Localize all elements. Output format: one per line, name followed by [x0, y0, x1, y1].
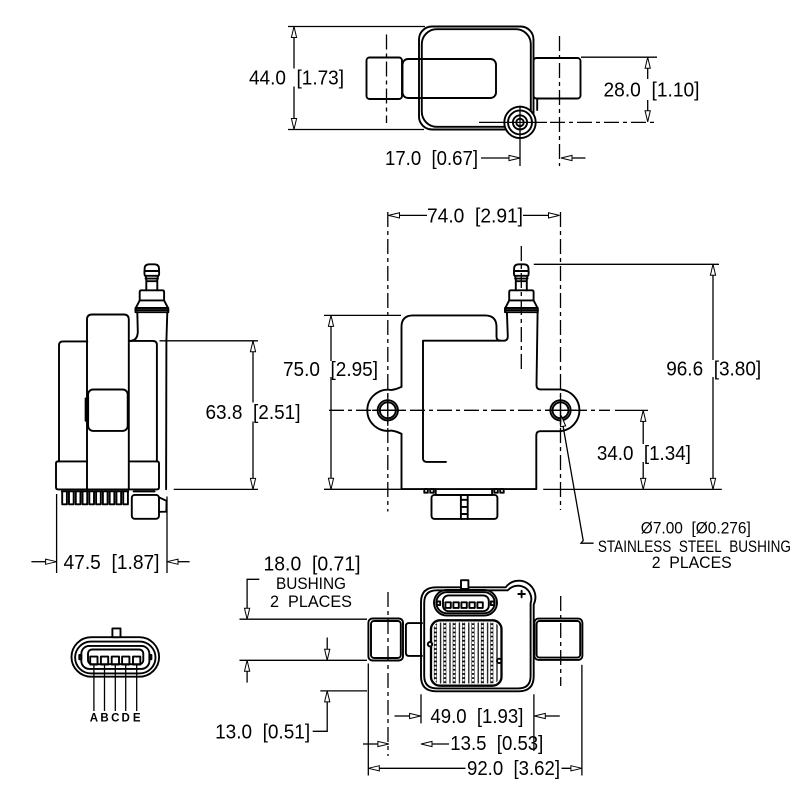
top view tower ring 4	[516, 119, 524, 127]
front view right hole cross	[545, 395, 576, 426]
bottom view rivet right	[497, 659, 501, 663]
dim 47.5 right arrow tail	[178, 561, 190, 563]
dim 49.0 right arrow tail	[545, 715, 560, 717]
bottom view left bushing boss	[406, 623, 422, 656]
bottom view core lamination pattern	[433, 623, 499, 684]
bottom view pin holder	[443, 595, 489, 611]
front view tower neck	[516, 279, 527, 291]
dim 74.0 arrow left	[389, 213, 400, 218]
front view tower skirt	[505, 300, 537, 308]
dim 74.0 dimension line	[400, 214, 549, 216]
svg-text:74.0 [2.91]: 74.0 [2.91]	[427, 205, 523, 227]
bottom view body outer outline	[421, 581, 535, 692]
front view tower cap rib line	[515, 278, 527, 280]
top view left tab centerline	[386, 35, 388, 124]
detail pin C	[112, 657, 119, 665]
dim 63.8 arrow down	[250, 478, 255, 489]
svg-text:34.0 [1.34]: 34.0 [1.34]	[597, 443, 691, 465]
bottom view pin 4	[469, 602, 474, 608]
dim 28.0 dimension line	[647, 57, 649, 122]
dim 13.0 upper arrow tail	[326, 638, 328, 650]
svg-text:28.0 [1.10]: 28.0 [1.10]	[604, 80, 700, 102]
side view boot tower cap band	[144, 271, 159, 276]
bottom view plus mark	[518, 591, 525, 598]
front view tower cap dome	[514, 264, 528, 271]
front view left hole outer	[378, 400, 398, 420]
top view tower ring 2	[508, 110, 532, 134]
bottom view left tab outer	[368, 619, 403, 661]
dim 13.0 leader	[313, 702, 328, 731]
side view middle column	[87, 315, 129, 490]
side view boot tower cap dome	[145, 264, 159, 271]
svg-text:Ø7.00 [Ø0.276]: Ø7.00 [Ø0.276]	[641, 520, 751, 538]
dim 63.8 bottom extension line	[174, 488, 258, 490]
dim 28.0 arrow up	[645, 57, 650, 68]
dim 92.0 arrow left	[368, 766, 379, 771]
front view connector shroud band	[436, 489, 492, 495]
side view boot tower skirt	[136, 300, 168, 308]
detail connector wing right	[149, 655, 151, 659]
dim 96.6 bottom extension line	[543, 488, 722, 490]
dim 75.0 dimension line	[330, 316, 332, 488]
dim 96.6 top extension line	[534, 263, 719, 265]
dim 47.5 right extension line	[166, 497, 168, 574]
side view right column	[129, 341, 157, 462]
dim 34.0 dimension line	[642, 411, 644, 488]
front view horizontal centerline	[329, 409, 610, 411]
side view middle column notch	[86, 398, 89, 420]
detail connector wing left	[79, 655, 81, 659]
bottom view pin 5	[477, 602, 482, 608]
dim 18.0 arrow up	[245, 660, 250, 671]
front view latch nub 4	[500, 489, 504, 493]
dim 44.0 dimension line	[293, 28, 295, 129]
dim 49.0 arrow left	[534, 713, 545, 718]
dim 44.0 arrow up	[291, 27, 296, 38]
svg-text:2 PLACES: 2 PLACES	[652, 554, 732, 572]
svg-text:13.5 [0.53]: 13.5 [0.53]	[450, 733, 543, 755]
detail pin leader D	[125, 665, 127, 712]
dim 47.5 arrow left	[167, 559, 178, 564]
side view bottom-right flag	[159, 497, 167, 512]
dim 13.0 extension line	[320, 690, 367, 692]
dim 34.0 arrow down	[641, 478, 646, 489]
front view latch nub 3	[494, 489, 498, 493]
bottom view left tab inner	[371, 621, 401, 658]
front view tower cap band	[514, 271, 529, 276]
dim 13.0 arrow down	[325, 649, 330, 660]
svg-text:D: D	[122, 713, 130, 725]
front view tower centerline	[520, 246, 522, 371]
top view right tab centerline	[559, 36, 561, 166]
dim 49.0 right extension line	[533, 694, 535, 751]
detail pin leader E	[136, 665, 138, 712]
dim 47.5 left extension line	[56, 494, 58, 573]
dim 47.5 left arrow tail	[31, 561, 45, 563]
dim 18.0 bottom extension line	[240, 659, 368, 661]
svg-text:2 PLACES: 2 PLACES	[270, 593, 352, 611]
svg-text:E: E	[133, 713, 141, 725]
dim 28.0 arrow down	[645, 111, 650, 122]
top view tower ring 3	[513, 115, 527, 129]
front view main outline	[402, 312, 580, 489]
svg-text:B: B	[100, 713, 108, 725]
detail pin leader A	[93, 665, 95, 712]
front view connector block	[432, 495, 498, 519]
bottom view connector stadium outer	[434, 590, 497, 616]
dim 18.0 arrow down	[245, 608, 250, 619]
dim 34.0 extension stub	[615, 409, 648, 411]
side view boot left edge	[130, 312, 138, 341]
front view latch nub 1	[424, 489, 428, 493]
dim 63.8 top extension line	[160, 340, 259, 342]
side view boot tower cap rib line	[146, 278, 158, 280]
detail pin leader B	[104, 665, 106, 712]
front view latch nub 2	[430, 489, 434, 493]
top view tower center cross horizontal	[479, 121, 547, 123]
dim 47.5 arrow right	[46, 559, 57, 564]
front view internal step line vertical	[423, 342, 446, 462]
side view bottom-right block lip	[134, 490, 155, 492]
dim 17.0 leader line left	[481, 157, 509, 159]
dim 49.0 left extension line	[420, 694, 422, 723]
side view boot tower cap taper	[145, 276, 158, 279]
dim 96.6 arrow up	[710, 264, 715, 275]
bottom view body inner outline	[424, 586, 531, 689]
dim 92.0 left extension line	[367, 664, 369, 776]
top view tower center cross vertical	[519, 106, 521, 167]
detail connector top tab	[112, 628, 120, 637]
dim 13.5 left arrow tail	[363, 743, 378, 745]
dim 49.0 left arrow tail	[395, 715, 410, 717]
svg-text:17.0 [0.67]: 17.0 [0.67]	[385, 148, 478, 170]
front view left hole inner	[380, 402, 396, 418]
bottom view right tab centerline	[560, 596, 562, 686]
front view left lobe	[367, 387, 401, 434]
svg-text:BUSHING: BUSHING	[276, 575, 346, 593]
svg-text:96.6 [3.80]: 96.6 [3.80]	[666, 359, 761, 381]
dim 18.0 top extension line	[240, 618, 368, 620]
svg-text:13.0 [0.51]: 13.0 [0.51]	[215, 721, 310, 743]
side view left block	[59, 341, 87, 461]
dim 17.0 arrow right	[509, 155, 520, 160]
bottom view pin 3	[461, 602, 466, 608]
front view right hole centerline	[560, 212, 562, 510]
bottom view rivet left	[428, 642, 432, 646]
side view boot right edge	[166, 312, 167, 489]
dim 44.0 bottom extension line	[288, 129, 424, 131]
svg-text:75.0 [2.95]: 75.0 [2.95]	[283, 359, 378, 381]
top view slot	[403, 59, 497, 98]
top view left mounting tab	[367, 58, 403, 100]
dim 75.0 bottom extension line	[324, 488, 402, 490]
dim 63.8 arrow up	[250, 341, 255, 352]
svg-text:63.8 [2.51]: 63.8 [2.51]	[206, 402, 301, 424]
side view middle column inner rect	[88, 390, 128, 431]
front view tower band	[505, 308, 538, 312]
detail pin D	[122, 657, 129, 665]
top view body outer outline	[419, 27, 534, 130]
bottom view connector notch right	[491, 602, 494, 606]
detail pin E	[133, 657, 140, 665]
front view internal step line horizontal	[423, 340, 501, 342]
bottom view right tab outer	[534, 619, 582, 660]
dim 75.0 arrow down	[328, 478, 333, 489]
top view tower centerline to 28.0 dim	[550, 121, 657, 123]
dim 44.0 arrow down	[291, 119, 296, 130]
bottom view connector notch left	[437, 602, 440, 606]
dim 44.0 top extension line	[288, 26, 425, 28]
svg-text:49.0 [1.93]: 49.0 [1.93]	[430, 706, 523, 728]
bottom view left tab centerline	[387, 592, 389, 756]
dim 92.0 dimension line	[369, 767, 581, 769]
detail connector holder inner	[88, 650, 143, 665]
dim 17.0 arrow left	[561, 155, 572, 160]
front view right hole inner	[553, 402, 569, 418]
bottom view top tab	[461, 580, 468, 589]
front view right hole outer	[550, 400, 570, 420]
side view bottom-right block	[132, 495, 159, 519]
side view boot tower band midline	[136, 309, 169, 311]
top view tab stub edge	[536, 99, 538, 111]
bushing leader arrow	[559, 415, 566, 427]
dim 75.0 arrow up	[328, 315, 333, 326]
svg-text:C: C	[111, 713, 119, 725]
front view left hole cross	[372, 395, 404, 426]
dim 18.0 lower arrow tail	[246, 671, 248, 682]
detail pin A	[90, 657, 97, 665]
dim 13.5 arrow right	[378, 741, 389, 746]
svg-text:92.0 [3.62]: 92.0 [3.62]	[467, 758, 560, 780]
dim 92.0 right extension line	[581, 665, 583, 776]
front view connector key column	[461, 495, 468, 519]
top view right mounting tab	[534, 58, 581, 99]
dim 96.6 arrow down	[710, 478, 715, 489]
dim 13.5 right arrow tail	[432, 743, 449, 745]
detail connector stadium 2	[75, 642, 155, 674]
detail connector stadium outer	[72, 637, 160, 677]
side view boot tower neck	[146, 279, 157, 291]
front view left hole centerline	[387, 212, 389, 512]
detail pin leader C	[114, 665, 116, 712]
top view tower outer circle	[504, 107, 535, 138]
side view connector teeth	[62, 491, 128, 504]
bottom view connector stadium inner	[436, 592, 494, 613]
svg-text:44.0 [1.73]: 44.0 [1.73]	[249, 68, 344, 90]
side view base flange	[56, 461, 159, 489]
dim 18.0 leader bracket	[247, 579, 259, 608]
side view boot tower flange	[140, 290, 164, 300]
dim 13.0 arrow up	[325, 691, 330, 702]
dim 96.6 dimension line	[712, 265, 714, 488]
dim 34.0 arrow up	[641, 410, 646, 421]
side view boot tower band	[136, 308, 169, 312]
dim 28.0 top extension line	[581, 56, 657, 58]
svg-text:18.0 [0.71]: 18.0 [0.71]	[264, 554, 361, 576]
top view body inner outline	[422, 29, 531, 127]
bottom view core border	[431, 620, 502, 685]
dim 92.0 arrow right	[571, 766, 582, 771]
front view tower band midline	[505, 309, 538, 311]
front view tower cap taper	[515, 276, 528, 279]
dim 75.0 top extension line	[324, 314, 401, 316]
dim 17.0 leader line right	[572, 157, 586, 159]
svg-text:47.5 [1.87]: 47.5 [1.87]	[64, 552, 160, 574]
dim 49.0 arrow right	[410, 713, 421, 718]
bottom view pin 2	[453, 602, 458, 608]
dim 63.8 dimension line	[252, 342, 254, 489]
bottom view pin 1	[445, 602, 450, 608]
front view tower flange	[509, 290, 533, 300]
svg-text:A: A	[90, 713, 98, 725]
detail pin B	[101, 657, 108, 665]
dim 74.0 arrow right	[549, 213, 560, 218]
detail connector holder outer	[81, 646, 149, 669]
bushing leader line	[563, 426, 594, 543]
dim 13.5 arrow left	[421, 741, 432, 746]
bottom view right tab inner	[537, 621, 581, 658]
